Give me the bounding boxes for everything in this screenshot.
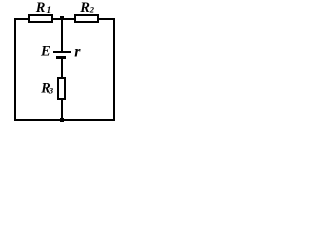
resistor R2 (74, 14, 99, 23)
wire: top rail left segment (corner to R1) (14, 18, 29, 20)
label R2 value (79, 0, 95, 16)
node A: junction of middle branch with top rail (60, 16, 64, 20)
wire: top rail right segment (R2 to corner) (97, 18, 114, 20)
label R3 value (40, 81, 54, 97)
wire: middle branch from R3 down to bottom rail (61, 100, 63, 119)
wire: left vertical side of outer loop (14, 18, 16, 121)
label E (emf) (40, 44, 51, 60)
svg-text:R: R (79, 0, 90, 16)
battery E: short thick negative plate (56, 56, 66, 59)
svg-text:1: 1 (47, 6, 52, 16)
node B: junction of middle branch with bottom rail (60, 118, 64, 122)
label R1 value (35, 0, 51, 16)
wire: right vertical side of outer loop (113, 18, 115, 121)
svg-text:r: r (74, 44, 81, 61)
battery E: long positive plate (53, 51, 71, 53)
wire: bottom rail of outer loop (14, 119, 115, 121)
wire: top rail middle segment (R1 to R2 through node) (52, 18, 75, 20)
resistor R3 (57, 77, 66, 100)
svg-text:2: 2 (89, 5, 95, 15)
wire: middle branch from battery down to R3 (61, 59, 63, 78)
svg-text:3: 3 (48, 86, 54, 96)
svg-text:E: E (40, 44, 51, 60)
svg-text:R: R (35, 0, 46, 16)
wire: middle branch from top rail down to battery (61, 18, 63, 51)
label r (internal resistance) (74, 44, 81, 61)
resistor R1 (28, 14, 53, 23)
